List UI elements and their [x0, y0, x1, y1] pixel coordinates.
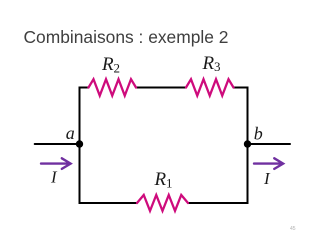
wire bottom-left segment [79, 202, 138, 204]
node a [76, 140, 83, 147]
wire node b stub [248, 143, 291, 145]
svg-text:Combinaisons : exemple 2: Combinaisons : exemple 2 [24, 27, 229, 47]
svg-text:3: 3 [214, 59, 221, 74]
resistor R1 [137, 195, 188, 211]
arrow I right [254, 158, 283, 169]
wire top-right segment [234, 87, 248, 89]
svg-text:R: R [202, 53, 215, 74]
node b [244, 140, 251, 147]
svg-text:a: a [66, 123, 75, 143]
resistor R3 [186, 79, 234, 95]
wire top-left segment [79, 87, 89, 89]
wire top-middle segment [136, 87, 186, 89]
svg-text:R: R [154, 169, 167, 190]
arrow I left [41, 158, 71, 169]
wire node a stub [35, 143, 80, 145]
svg-text:1: 1 [166, 176, 173, 191]
svg-text:2: 2 [114, 61, 121, 76]
svg-text:R: R [101, 54, 114, 75]
resistor R2 [89, 79, 137, 95]
wire right vertical [247, 87, 249, 205]
wire left vertical [79, 87, 81, 205]
svg-text:b: b [254, 123, 263, 143]
svg-text:45: 45 [290, 226, 296, 232]
wire bottom-right segment [188, 202, 249, 204]
